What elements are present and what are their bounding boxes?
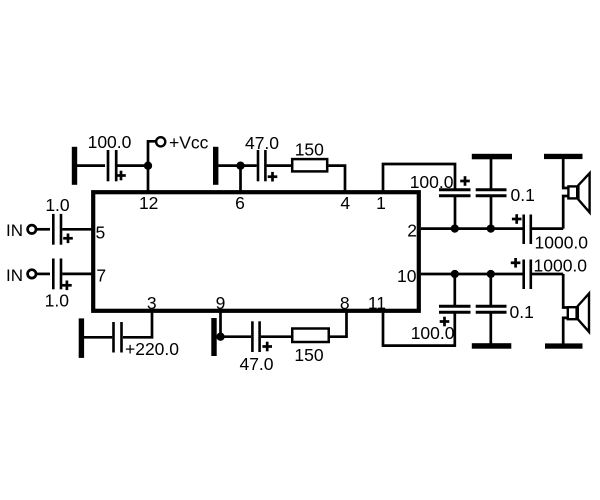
svg-text:3: 3 [147, 293, 157, 313]
capacitor C2 47.0 (pin 6) [258, 150, 265, 181]
svg-text:5: 5 [96, 222, 106, 242]
svg-text:8: 8 [340, 293, 350, 313]
C4 plus [62, 281, 72, 291]
svg-text:47.0: 47.0 [245, 133, 279, 153]
C6 plus [262, 342, 272, 352]
junction node 12 [144, 162, 152, 170]
junction node 2b [487, 224, 495, 232]
capacitor C12 1000.0 (pin 10 out) [524, 260, 531, 290]
wire pin 2 row [421, 227, 523, 230]
wire C7 down to node 2a [454, 196, 457, 229]
wire C5 to ground [84, 336, 112, 339]
svg-text:1: 1 [376, 193, 386, 213]
ground G2 top-mid [213, 147, 218, 185]
wire speaker bottom upper lead [563, 274, 568, 308]
ground G1 top-left [72, 147, 77, 185]
svg-text:6: 6 [235, 193, 245, 213]
wire G1 to C1 [77, 164, 105, 167]
wire G2 to node 6 [218, 164, 240, 167]
junction node 6 [236, 162, 244, 170]
terminal IN bottom circle [28, 270, 36, 278]
speaker SP1 box [568, 186, 577, 198]
svg-text:1000.0: 1000.0 [534, 255, 588, 275]
junction node 10a [451, 270, 459, 278]
svg-text:9: 9 [216, 293, 226, 313]
svg-text:1000.0: 1000.0 [535, 232, 589, 252]
wire C1 to node12 [118, 164, 149, 167]
terminal IN top circle [28, 225, 36, 233]
svg-text:7: 7 [96, 265, 106, 285]
capacitor C1 100.0 (pin 12) [108, 150, 116, 181]
wire node12 down to pin 12 [147, 166, 150, 192]
C2 plus [268, 172, 278, 182]
speaker SP2 box [568, 307, 577, 319]
wire C9 to speaker top [532, 227, 563, 230]
svg-text:IN: IN [6, 266, 23, 285]
wire node10a down to C10 [453, 274, 456, 306]
svg-text:100.0: 100.0 [410, 172, 454, 192]
svg-text:1.0: 1.0 [45, 195, 70, 215]
svg-text:100.0: 100.0 [411, 323, 455, 343]
resistor R2 150 [292, 329, 329, 343]
wire G5 to C8 [490, 159, 493, 190]
svg-text:12: 12 [139, 193, 158, 213]
C7 plus [460, 176, 470, 186]
wire C3 to pin 5 [62, 228, 92, 231]
wire C10 down to pin 11 [383, 311, 455, 346]
svg-text:4: 4 [340, 193, 350, 213]
wire pin 9 down [219, 311, 222, 337]
terminal +Vcc circle [156, 137, 165, 146]
wire C6 to R2 [261, 335, 291, 338]
capacitor C8 0.1 (pin 2) [476, 190, 507, 196]
svg-text:+220.0: +220.0 [125, 339, 179, 359]
svg-text:0.1: 0.1 [510, 302, 534, 322]
svg-text:100.0: 100.0 [88, 132, 132, 152]
wire C2 to R1 [267, 164, 291, 167]
svg-text:IN: IN [6, 221, 23, 240]
capacitor C7 100.0 (pin 1/2) [439, 190, 471, 196]
wire C4 to pin 7 [62, 273, 92, 276]
wire node10b down to C11 [489, 274, 492, 306]
svg-text:150: 150 [294, 345, 323, 365]
svg-text:11: 11 [368, 293, 386, 313]
IC U1 body [93, 192, 419, 311]
junction node 9 [216, 333, 224, 341]
capacitor C11 0.1 (pin 10) [476, 306, 507, 312]
ground G5 top-right [472, 154, 512, 160]
svg-text:150: 150 [295, 140, 324, 160]
ground G8 bottom speaker [545, 343, 583, 348]
capacitor C5 220.0 (pin 3) [114, 322, 122, 353]
wire node6 to C2 [241, 164, 257, 167]
C9 plus [512, 214, 522, 224]
capacitor C6 47.0 (pin 9) [252, 321, 259, 352]
speaker SP1 cone [578, 173, 589, 212]
wire R2 to pin 8 [330, 311, 347, 337]
wire speaker bottom lower lead [563, 318, 568, 344]
svg-text:10: 10 [397, 266, 417, 286]
resistor R1 150 [292, 159, 327, 171]
wire speaker top lower lead [563, 196, 568, 229]
capacitor C10 100.0 (pin 11/10) [439, 306, 471, 312]
wire pin 3 down-left [123, 311, 152, 337]
C10 plus [440, 317, 450, 327]
speaker SP2 cone [578, 294, 589, 332]
wire INbot to C4 [36, 273, 50, 276]
svg-text:1.0: 1.0 [45, 290, 70, 310]
svg-text:+Vcc: +Vcc [169, 133, 209, 153]
C1 plus [116, 171, 126, 181]
svg-text:47.0: 47.0 [239, 354, 273, 374]
wire C11 down to ground [489, 312, 492, 344]
ground G7 bottom-right [472, 343, 512, 349]
ground G4 bottom-mid [211, 318, 216, 356]
wire G4 to node 9 to C6 [217, 335, 251, 338]
C3 plus [63, 234, 73, 244]
wire node12 up to Vcc [148, 141, 156, 165]
svg-text:0.1: 0.1 [511, 185, 535, 205]
wire INtop to C3 [36, 228, 50, 231]
junction node 10b [487, 270, 495, 278]
capacitor C3 1.0 (pin 5) [53, 214, 61, 245]
capacitor C9 1000.0 (pin 2 out) [524, 215, 531, 245]
wire R1 to pin 4 [329, 166, 346, 192]
capacitor C4 1.0 (pin 7) [53, 259, 61, 290]
wire pin 1 up to C7 [383, 164, 455, 192]
wire C8 down to node 2b [490, 196, 493, 229]
svg-text:2: 2 [407, 221, 417, 241]
ground G6 top speaker [544, 154, 583, 159]
junction node 2a [451, 224, 459, 232]
wire pin 10 row [421, 273, 523, 276]
ground G3 bottom-left [79, 318, 84, 358]
wire speaker top upper lead [563, 158, 568, 188]
wire node6 down to pin 6 [239, 166, 242, 192]
wire C12 to speaker bottom [532, 273, 563, 276]
C12 plus [511, 258, 521, 268]
